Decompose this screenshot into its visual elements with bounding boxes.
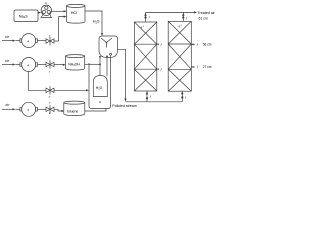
wire valve to NH4OH drum (54, 64, 64, 66)
svg-text:a: a (28, 39, 30, 43)
svg-text:HCl: HCl (71, 11, 77, 15)
wire valve to riser (row 1) (54, 40, 59, 42)
wire port2 down to flask (106, 56, 108, 76)
vessel outlet wire to downcomer (118, 49, 126, 99)
wire valve to toluene drum (54, 109, 63, 111)
HCl vessel (67, 4, 86, 23)
junction dot NH4OH tee (99, 63, 101, 65)
valve c (row 1) (46, 37, 54, 45)
svg-text:27 cm: 27 cm (203, 65, 212, 69)
treated air header (146, 11, 195, 13)
svg-text:c: c (49, 34, 51, 38)
pump flange right (row 1) (36, 39, 38, 42)
svg-text:f: f (161, 42, 163, 46)
port marker right of column 1 upper (157, 43, 159, 45)
wire valve e to water bath (54, 89, 87, 91)
svg-text:air: air (6, 103, 11, 107)
svg-text:f: f (185, 95, 187, 99)
svg-text:56 cm: 56 cm (203, 42, 212, 46)
wire pump b to HCl vessel (52, 10, 65, 12)
air pump a (row 3) (20, 108, 22, 111)
wire toluene outlet (85, 108, 106, 111)
svg-text:toluene: toluene (67, 110, 79, 114)
air row 3 (2, 108, 13, 110)
H2O flask (93, 76, 107, 97)
svg-text:d: d (99, 100, 101, 104)
svg-text:1: 1 (143, 25, 144, 28)
svg-text:Treated air: Treated air (198, 11, 216, 15)
valve c/e (row 3) (46, 105, 54, 114)
NH4OH drum (66, 56, 85, 70)
wire row1 riser to HCl vessel (59, 17, 65, 41)
branch from pump2 down to bath valve (28, 72, 46, 91)
svg-text:a: a (28, 108, 30, 112)
pump flange right (row 3) (36, 108, 38, 111)
svg-text:f: f (186, 16, 188, 20)
air row 2 (2, 64, 13, 66)
arrowhead air row 3 (13, 108, 16, 110)
toluene drum (64, 103, 85, 116)
svg-text:61 cm: 61 cm (199, 16, 208, 20)
wire pump to valve (row 3) (38, 108, 47, 110)
air pump a (row 1) (20, 39, 22, 42)
svg-text:f: f (197, 42, 199, 46)
wire Na2S to pump b (37, 12, 40, 14)
wire NH4OH outlet tee (85, 63, 100, 65)
wire port1 down to flask (99, 57, 101, 76)
column 1 top stub (145, 12, 147, 22)
vessel bottom ports (99, 56, 101, 58)
column 1 feed stub (146, 91, 148, 102)
air pump a (row 2) (20, 63, 22, 66)
arrowhead air row 2 (13, 63, 16, 65)
column 2 feed stub (181, 91, 183, 102)
svg-text:f: f (197, 65, 199, 69)
svg-text:f: f (161, 67, 163, 71)
port markers right of column 2 (191, 43, 195, 45)
valve e branch (46, 86, 54, 94)
svg-text:a: a (28, 63, 30, 67)
impeller (101, 38, 112, 48)
svg-text:f: f (150, 95, 152, 99)
stirred mixing vessel (99, 36, 118, 58)
water bath d (89, 56, 110, 108)
polluted stream header (126, 101, 183, 103)
valve c (row 2) (46, 60, 54, 68)
air row 1 (2, 40, 13, 42)
arrowhead air row 1 (13, 40, 16, 42)
svg-text:c: c (49, 100, 51, 104)
svg-text:b: b (45, 1, 47, 5)
svg-text:e: e (49, 111, 51, 115)
svg-text:c: c (49, 69, 51, 73)
wire HCl to H2S downcomer (85, 11, 102, 33)
Na2S feed box (14, 10, 38, 22)
svg-text:e: e (49, 95, 51, 99)
port marker right of column 1 lower (157, 68, 159, 70)
svg-text:air: air (5, 35, 10, 39)
svg-text:f: f (149, 15, 151, 19)
pump flange right (row 2) (36, 63, 38, 66)
svg-text:air: air (5, 59, 10, 63)
svg-text:H2S: H2S (93, 20, 100, 25)
column 2 (168, 21, 191, 91)
column 2 top stub (182, 12, 184, 21)
wire pump to valve (row 2) (38, 64, 47, 66)
wire pump to valve (row 1) (38, 40, 47, 42)
column 1 (134, 22, 156, 91)
peristaltic pump b (41, 5, 51, 15)
svg-text:Polluted stream: Polluted stream (112, 104, 136, 108)
